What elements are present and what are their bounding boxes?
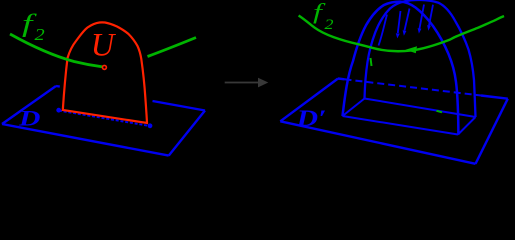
green curve f2 (right, across dome) [299, 16, 504, 52]
base left edge [343, 99, 365, 117]
plane D left edge (W to N) [2, 86, 56, 124]
plane D' top edge solid right part [481, 96, 508, 99]
rib arrow 3 on vault [405, 9, 410, 31]
green arrowhead on curve [406, 46, 418, 53]
chord endpoint dot right [148, 123, 153, 128]
plane D' right edge (E to S) [476, 99, 508, 164]
plane D' bottom edge (S to W) [280, 121, 475, 164]
green curve f2 (left, ends at dot) [10, 34, 103, 67]
arch U (red outline region) [63, 22, 147, 123]
base front edge [343, 116, 459, 135]
dome back arch [365, 0, 476, 117]
plane D' top edge dashed behind dome [345, 79, 482, 95]
green dash on back arch [371, 58, 372, 66]
chord segment on D under arch (dashed) [59, 111, 150, 126]
chord endpoint dot left [56, 108, 61, 113]
plane D' top edge solid stub [338, 77, 345, 80]
dome base rectangle on D' [343, 99, 476, 135]
plane D': parallelogram [280, 79, 508, 164]
svg-text:D′: D′ [295, 105, 326, 131]
svg-text:2: 2 [325, 16, 334, 33]
rib arrow 2 on vault [398, 11, 401, 33]
plane D top edge right part (behind arch to E) [153, 101, 206, 111]
plane D: parallelogram, top edge hidden behind arch [2, 86, 205, 156]
rib line 1 on vault [379, 15, 388, 46]
dome front arch [343, 2, 459, 135]
green dash near base [437, 111, 443, 113]
point dot on curve [102, 65, 106, 69]
svg-text:2: 2 [35, 26, 45, 45]
base back edge [365, 99, 476, 118]
base right edge [458, 117, 476, 135]
rib arrow 4 on vault [420, 5, 425, 29]
plane D top edge left stub (N to arch) [56, 85, 60, 88]
rib arrow 5 on vault [429, 5, 433, 26]
svg-text:U: U [91, 28, 117, 64]
plane D bottom edge (S to W) [2, 124, 169, 156]
svg-text:D: D [18, 106, 41, 130]
arrow between figures [225, 78, 269, 88]
plane D' left edge (W to N) [280, 79, 338, 122]
green curve f2 (left, right of arch) [148, 38, 197, 57]
plane D right edge (E to S) [169, 111, 205, 156]
